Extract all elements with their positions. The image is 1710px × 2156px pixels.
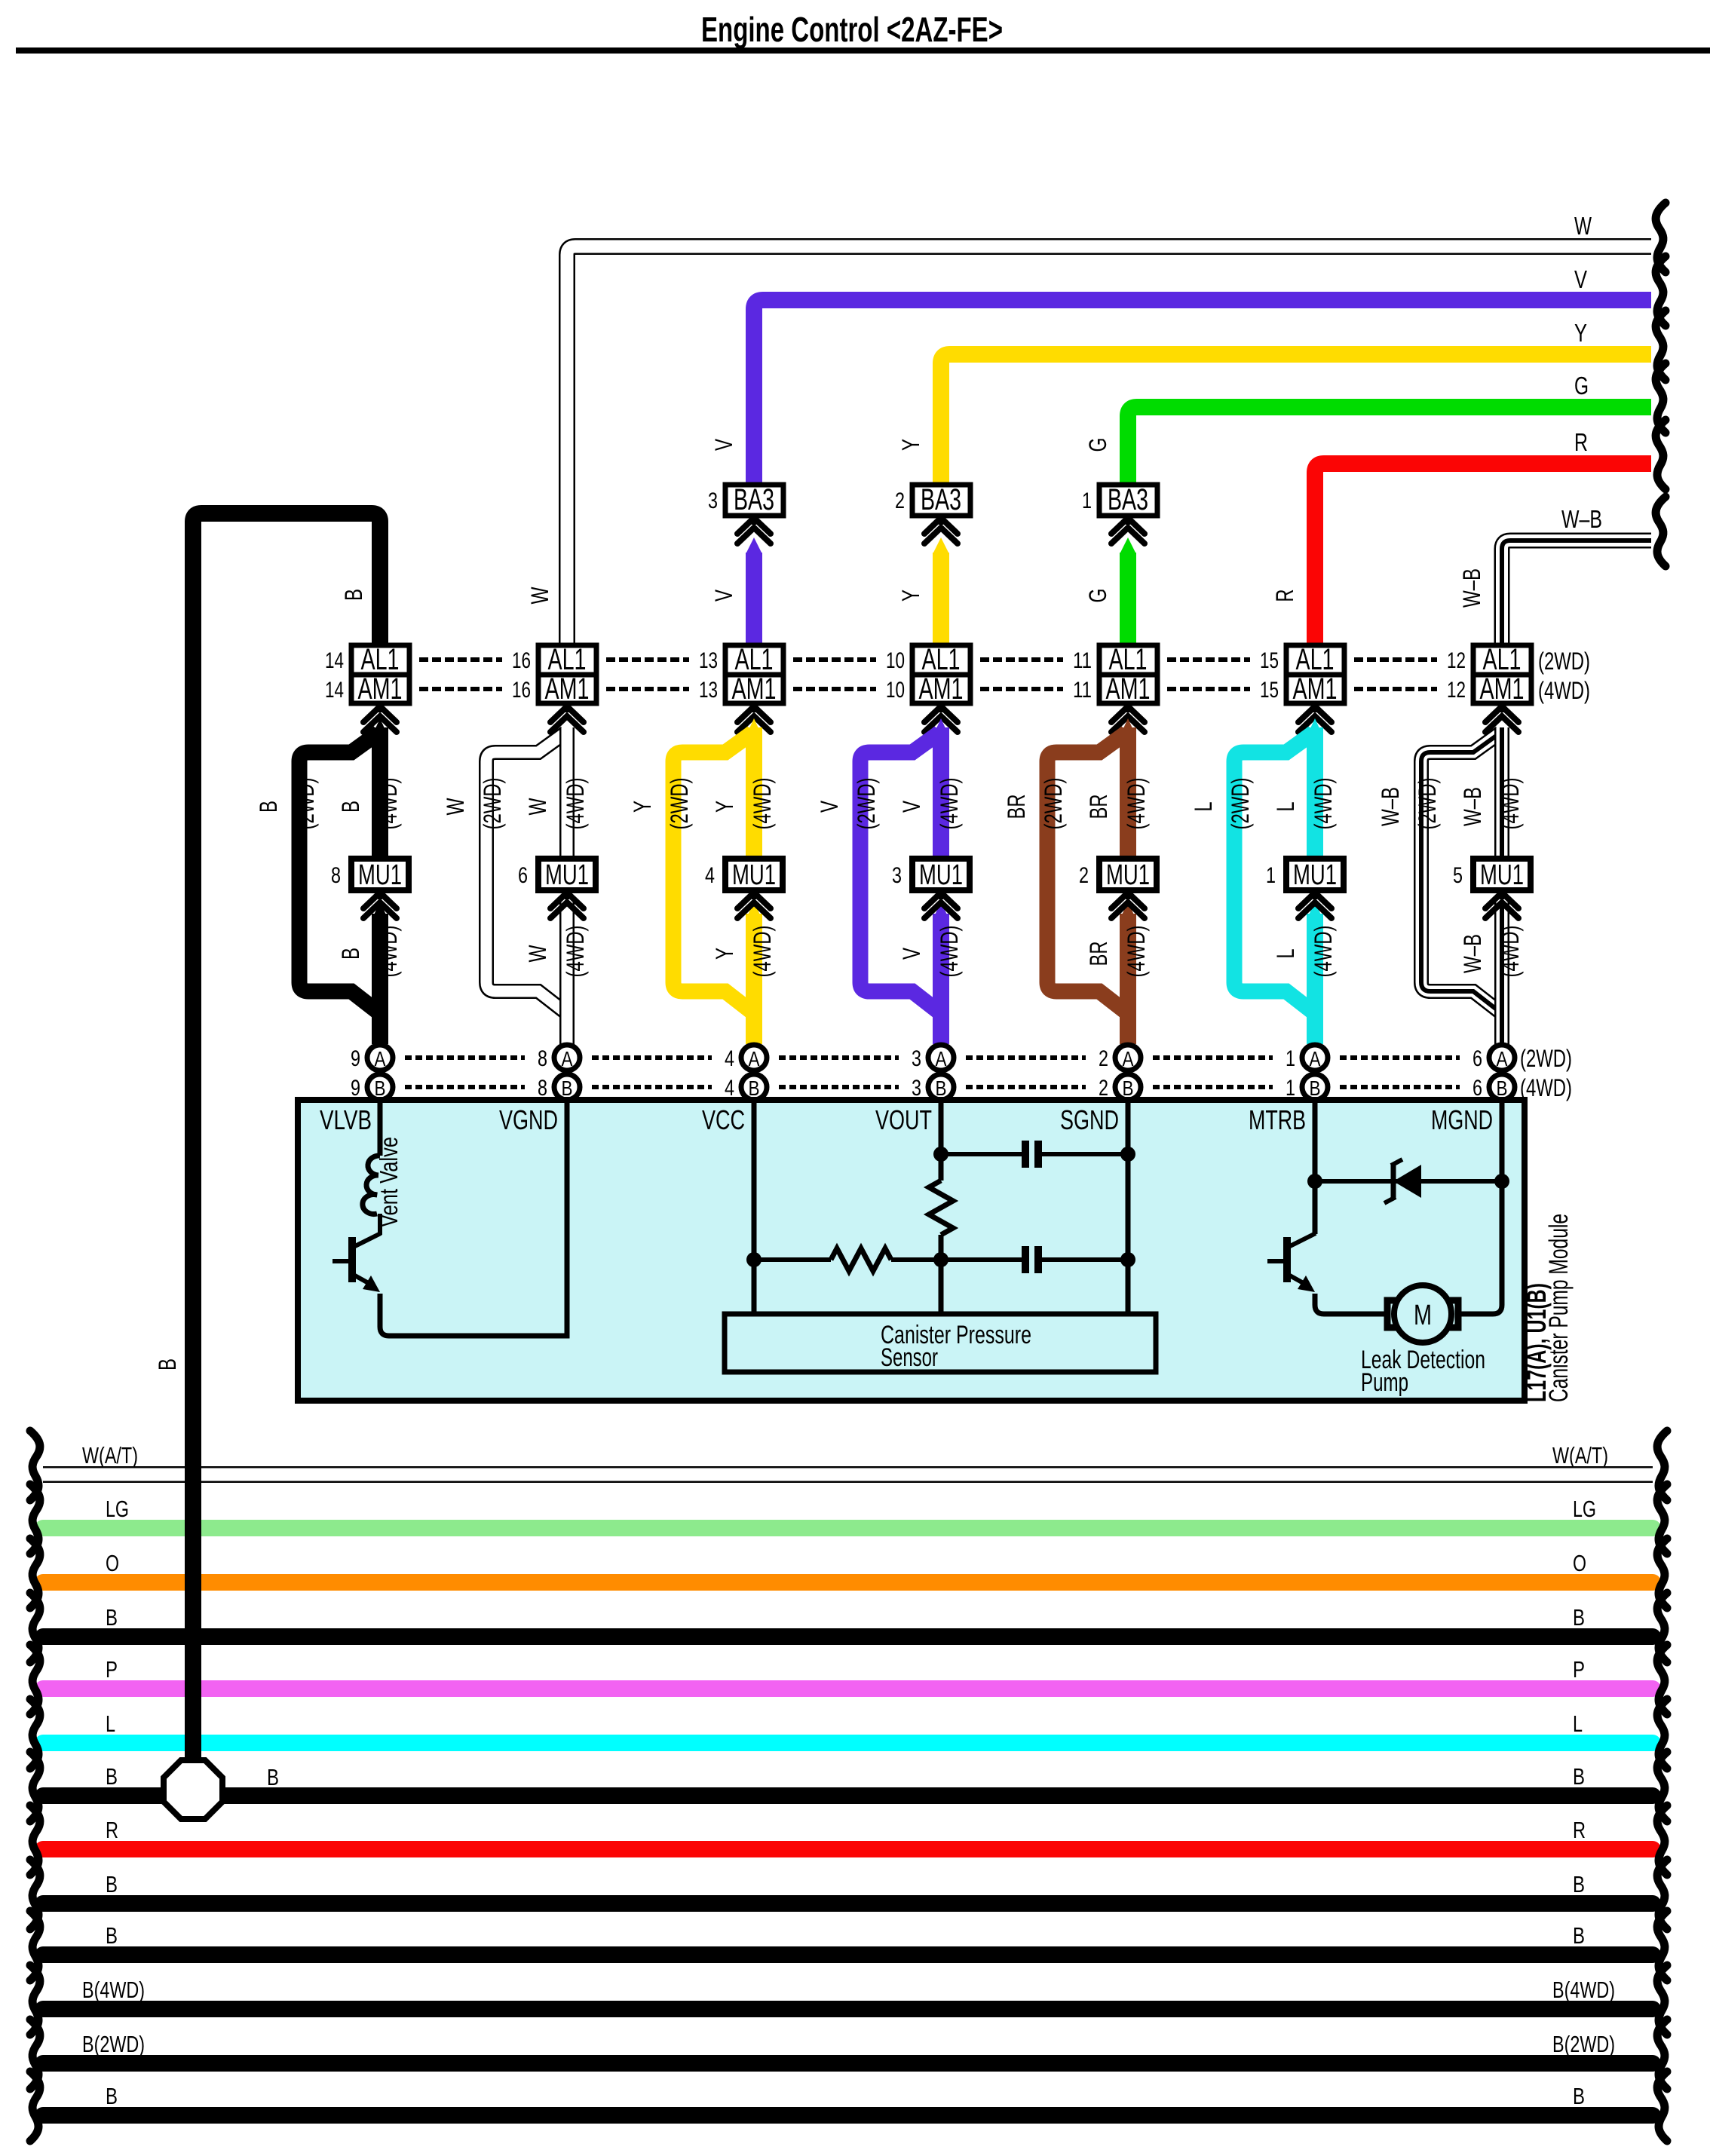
svg-text:W: W <box>524 945 551 963</box>
chevron below MU1 pin 6 <box>565 890 569 899</box>
wire W top horizontal (white) <box>567 247 1651 645</box>
svg-text:BR: BR <box>1085 942 1112 966</box>
svg-text:A: A <box>1123 1047 1134 1070</box>
brace left <box>30 1752 40 1821</box>
chevron below MU1 pin 4 <box>752 890 756 899</box>
svg-text:G: G <box>1084 438 1111 452</box>
brace left <box>30 1484 40 1554</box>
wire W–B 2WD branch loop col7 <box>1421 733 1500 1012</box>
dashed link B row <box>405 1085 525 1089</box>
connector MU1 pin 5 <box>1473 859 1531 890</box>
svg-text:6: 6 <box>1472 1046 1482 1071</box>
svg-text:B: B <box>1573 1604 1585 1631</box>
dashed link AM1 row <box>980 687 1063 691</box>
svg-text:AL1: AL1 <box>1109 643 1148 676</box>
svg-text:B: B <box>106 1922 118 1949</box>
wire W 2WD branch loop col2 <box>486 733 565 1012</box>
svg-text:AM1: AM1 <box>545 672 590 706</box>
svg-text:VCC: VCC <box>702 1104 745 1135</box>
node A pin 1 col6 <box>1302 1045 1328 1070</box>
svg-text:AM1: AM1 <box>1293 672 1338 706</box>
svg-text:W: W <box>524 798 551 816</box>
wire row O y=2099 <box>43 1574 1653 1591</box>
brace W-B right <box>1656 497 1666 566</box>
chevron below BA3 pin 3 <box>737 518 771 534</box>
svg-text:Engine Control <2AZ-FE>: Engine Control <2AZ-FE> <box>701 10 1003 49</box>
connector AM1 pin 12 <box>1473 675 1531 703</box>
node B pin 2 col5 <box>1115 1074 1141 1100</box>
svg-text:V: V <box>1574 265 1587 293</box>
svg-text:LG: LG <box>1573 1496 1596 1522</box>
svg-text:2: 2 <box>1099 1046 1108 1071</box>
splice octagon junction <box>164 1760 222 1819</box>
dashed link B row <box>592 1085 712 1089</box>
brace left <box>30 1431 40 1500</box>
dashed link A row <box>1340 1055 1460 1060</box>
dashed link A row <box>1153 1055 1273 1060</box>
brace right <box>1657 1645 1667 1714</box>
svg-text:B(2WD): B(2WD) <box>82 2031 145 2057</box>
wire MGND vertical to motor <box>1460 1100 1502 1314</box>
connector BA3 pin 3 <box>752 516 756 525</box>
chevron below MU1 pin 3 <box>939 890 943 899</box>
connector BA3 pin 2 <box>939 516 943 525</box>
connector AM1 pin 10 <box>912 675 970 703</box>
svg-text:B(2WD): B(2WD) <box>1552 2031 1615 2057</box>
brace left <box>30 1593 40 1662</box>
svg-text:B: B <box>267 1764 279 1790</box>
dashed link B row <box>779 1085 899 1089</box>
connector BA3 pin 1 <box>1126 516 1130 525</box>
svg-text:P: P <box>1573 1656 1585 1683</box>
svg-text:MU1: MU1 <box>545 859 589 891</box>
svg-text:1: 1 <box>1266 863 1276 888</box>
wire row R y=2453 <box>43 1841 1653 1857</box>
svg-text:B: B <box>1573 2083 1585 2109</box>
connector MU1 pin 8 <box>351 859 409 890</box>
wire row B y=2806 <box>43 2107 1653 2124</box>
wire row B y=2525 <box>43 1895 1653 1912</box>
svg-text:P: P <box>106 1656 118 1683</box>
svg-text:3: 3 <box>708 488 718 513</box>
wire L 4WD main col6 <box>1307 718 1323 737</box>
svg-text:10: 10 <box>886 678 905 703</box>
svg-text:(4WD): (4WD) <box>1538 677 1590 704</box>
svg-text:1: 1 <box>1082 488 1092 513</box>
node B pin 8 col2 <box>554 1074 580 1100</box>
svg-text:4: 4 <box>705 863 715 888</box>
junction dot MGND <box>1494 1174 1509 1189</box>
brace right <box>1657 1539 1667 1608</box>
svg-text:10: 10 <box>886 648 905 673</box>
chevron below AM1 pin 15 <box>1313 703 1317 712</box>
connector MU1 pin 2 <box>1099 859 1157 890</box>
svg-text:V: V <box>898 948 925 960</box>
svg-text:SGND: SGND <box>1060 1104 1119 1135</box>
svg-text:O: O <box>1573 1550 1586 1576</box>
svg-text:2: 2 <box>1079 863 1089 888</box>
svg-text:R: R <box>1271 590 1298 602</box>
svg-text:AM1: AM1 <box>1480 672 1525 706</box>
dashed link A row <box>405 1055 525 1060</box>
wire L 2WD branch loop col6 <box>1234 733 1313 1012</box>
brace left <box>30 1539 40 1608</box>
connector AL1 pin 13 <box>725 645 783 675</box>
wire row B(2WD) y=2737 <box>43 2055 1653 2072</box>
brace left <box>30 1911 40 1980</box>
svg-text:V: V <box>816 801 843 813</box>
wire row B y=2171 <box>43 1628 1653 1645</box>
svg-text:B: B <box>106 1604 118 1631</box>
svg-text:B: B <box>1310 1076 1321 1100</box>
svg-text:B: B <box>106 2083 118 2109</box>
chevron below AM1 pin 13 <box>752 703 756 712</box>
svg-text:3: 3 <box>892 863 902 888</box>
resistor vertical on VOUT <box>929 1181 953 1235</box>
wire MTRB vertical <box>1313 1100 1318 1234</box>
wire V between AL1-13 and BA3-3 <box>746 553 762 645</box>
svg-text:B: B <box>936 1076 947 1100</box>
wire G horizontal from BA3-1 to right edge <box>1128 407 1651 485</box>
dashed link AL1 row <box>980 657 1063 662</box>
svg-text:8: 8 <box>538 1046 547 1071</box>
brace V right <box>1656 256 1666 326</box>
chevron below BA3 pin 2 <box>924 518 958 534</box>
svg-text:(4WD): (4WD) <box>1123 926 1150 978</box>
resistor horizontal on VCC-VOUT <box>754 1257 831 1262</box>
dashed link AL1 row <box>1354 657 1437 662</box>
svg-text:AL1: AL1 <box>1296 643 1335 676</box>
component canister pressure sensor box <box>725 1314 1156 1372</box>
svg-text:M: M <box>1414 1300 1432 1331</box>
wire B 4WD main col1 <box>372 718 388 737</box>
svg-text:BA3: BA3 <box>1108 483 1148 516</box>
brace G right <box>1656 363 1666 433</box>
connector AM1 pin 16 <box>538 675 596 703</box>
svg-text:Canister Pump Module: Canister Pump Module <box>1544 1214 1574 1402</box>
wire V 2WD branch loop col4 <box>860 733 939 1012</box>
svg-text:MTRB: MTRB <box>1249 1104 1306 1135</box>
svg-text:A: A <box>936 1047 947 1070</box>
brace right <box>1657 1911 1667 1980</box>
dashed link A row <box>779 1055 899 1060</box>
svg-text:9: 9 <box>351 1046 360 1071</box>
connector AL1 pin 10 <box>912 645 970 675</box>
wire BR 2WD branch loop col5 <box>1047 733 1126 1012</box>
svg-text:(4WD): (4WD) <box>375 778 402 830</box>
svg-text:16: 16 <box>512 678 531 703</box>
wire row P y=2240 <box>43 1680 1653 1697</box>
wire G between AL1-11 and BA3-1 <box>1120 553 1136 645</box>
brace left <box>30 1805 40 1875</box>
wire Y 2WD branch loop col3 <box>673 733 752 1012</box>
svg-text:15: 15 <box>1260 648 1279 673</box>
brace right <box>1657 1699 1667 1769</box>
node A pin 6 col7 <box>1489 1045 1515 1070</box>
svg-text:B(4WD): B(4WD) <box>82 1977 145 2003</box>
dashed link AM1 row <box>606 687 689 691</box>
node A pin 2 col5 <box>1115 1045 1141 1070</box>
wire VLVB to vent valve coil <box>378 1100 383 1156</box>
wire row B y=2593 <box>43 1946 1653 1963</box>
svg-text:(4WD): (4WD) <box>936 926 963 978</box>
svg-text:VLVB: VLVB <box>320 1104 372 1135</box>
svg-text:W–B: W–B <box>1459 934 1486 973</box>
dashed link AL1 row <box>606 657 689 662</box>
svg-text:O: O <box>106 1550 119 1576</box>
svg-text:(4WD): (4WD) <box>375 926 402 978</box>
dashed link AM1 row <box>1167 687 1250 691</box>
svg-text:VGND: VGND <box>499 1104 558 1135</box>
inductor vent valve coil <box>363 1156 380 1214</box>
wire V horizontal from BA3-3 to right edge <box>754 300 1651 485</box>
svg-text:W(A/T): W(A/T) <box>1552 1442 1608 1468</box>
chevron below MU1 pin 1 <box>1313 890 1317 899</box>
svg-text:12: 12 <box>1447 678 1466 703</box>
svg-text:B: B <box>1573 1922 1585 1949</box>
svg-text:11: 11 <box>1073 648 1092 673</box>
title underline <box>16 47 1710 54</box>
chevron below AM1 pin 16 <box>565 703 569 712</box>
chevron below AM1 pin 11 <box>1126 703 1130 712</box>
junction dot MTRB <box>1307 1174 1322 1189</box>
svg-text:5: 5 <box>1453 863 1463 888</box>
svg-text:W: W <box>1574 212 1592 240</box>
brace left <box>30 1965 40 2035</box>
svg-text:B: B <box>337 801 364 813</box>
wire vent valve emitter to VGND <box>380 1100 567 1336</box>
transistor vent valve driver <box>378 1214 382 1235</box>
wire R from AL1-15 up and right to edge <box>1315 464 1651 645</box>
brace right <box>1657 1805 1667 1875</box>
svg-text:Y: Y <box>897 439 924 451</box>
connector AL1 pin 15 <box>1286 645 1344 675</box>
svg-text:B: B <box>1123 1076 1134 1100</box>
connector AL1 pin 16 <box>538 645 596 675</box>
svg-text:11: 11 <box>1073 678 1092 703</box>
svg-text:W–B: W–B <box>1561 505 1602 533</box>
svg-text:(4WD): (4WD) <box>562 778 589 830</box>
svg-text:(4WD): (4WD) <box>1497 926 1524 978</box>
svg-text:B: B <box>340 589 367 601</box>
wire SGND vertical <box>1126 1100 1131 1314</box>
svg-text:(2WD): (2WD) <box>1414 778 1441 830</box>
svg-text:V: V <box>710 439 737 451</box>
connector AM1 pin 15 <box>1286 675 1344 703</box>
connector AM1 pin 13 <box>725 675 783 703</box>
svg-text:(2WD): (2WD) <box>853 778 880 830</box>
connector AM1 pin 14 <box>351 675 409 703</box>
connector MU1 pin 1 <box>1286 859 1344 890</box>
svg-text:(4WD): (4WD) <box>749 778 776 830</box>
wire VOUT vertical <box>939 1100 944 1181</box>
svg-text:(4WD): (4WD) <box>562 926 589 978</box>
svg-text:(2WD): (2WD) <box>1520 1045 1572 1072</box>
brace right <box>1657 1593 1667 1662</box>
svg-text:AM1: AM1 <box>1106 672 1151 706</box>
svg-text:B: B <box>154 1358 181 1370</box>
brace W right <box>1656 203 1666 272</box>
svg-text:MGND: MGND <box>1431 1104 1493 1135</box>
brace right <box>1657 1431 1667 1500</box>
svg-text:BR: BR <box>1085 795 1112 819</box>
brace R right <box>1656 420 1666 489</box>
svg-text:(2WD): (2WD) <box>1538 648 1590 675</box>
svg-text:MU1: MU1 <box>358 859 402 891</box>
capacitor bottom between VOUT and SGND <box>941 1257 1022 1262</box>
chevron below BA3 pin 1 <box>1111 518 1145 534</box>
svg-text:(4WD): (4WD) <box>1520 1074 1572 1101</box>
svg-text:1: 1 <box>1286 1046 1295 1071</box>
svg-text:2: 2 <box>895 488 905 513</box>
svg-text:AL1: AL1 <box>922 643 961 676</box>
svg-text:L: L <box>1272 949 1299 959</box>
svg-text:L: L <box>1272 802 1299 812</box>
dashed link AL1 row <box>1167 657 1250 662</box>
node A pin 8 col2 <box>554 1045 580 1070</box>
svg-text:Y: Y <box>1574 319 1587 347</box>
node B pin 1 col6 <box>1302 1074 1328 1100</box>
svg-text:L: L <box>1190 802 1217 812</box>
wire emitter to motor <box>1315 1294 1386 1314</box>
svg-text:MU1: MU1 <box>1480 859 1524 891</box>
svg-text:VOUT: VOUT <box>875 1104 932 1135</box>
chevron below MU1 pin 8 <box>378 890 382 899</box>
svg-text:B: B <box>1573 1871 1585 1897</box>
connector AM1 pin 11 <box>1099 675 1157 703</box>
chevron below AM1 pin 12 <box>1500 703 1504 712</box>
svg-text:R: R <box>1573 1817 1586 1843</box>
svg-text:B: B <box>1573 1763 1585 1790</box>
brace left <box>30 1860 40 1929</box>
svg-text:Y: Y <box>897 590 924 602</box>
wire Y 4WD main col3 <box>746 718 762 737</box>
dashed link AL1 row <box>793 657 876 662</box>
node A pin 9 col1 <box>367 1045 393 1070</box>
svg-text:V: V <box>898 801 925 813</box>
wire W-B from AL1-12 up and right to edge (white with black stripe) <box>1502 541 1651 645</box>
wire W 4WD main col2 <box>559 727 575 862</box>
svg-text:B: B <box>255 801 282 813</box>
svg-text:B: B <box>562 1076 573 1100</box>
dashed link AM1 row <box>793 687 876 691</box>
svg-text:(4WD): (4WD) <box>1123 778 1150 830</box>
wire row LG y=2027 <box>43 1520 1653 1536</box>
svg-text:(2WD): (2WD) <box>1040 778 1067 830</box>
svg-text:(4WD): (4WD) <box>936 778 963 830</box>
svg-text:Y: Y <box>629 801 656 813</box>
brace left <box>30 2020 40 2089</box>
node B pin 3 col4 <box>928 1074 954 1100</box>
connector AL1 pin 14 <box>351 645 409 675</box>
svg-text:A: A <box>375 1047 386 1070</box>
svg-text:G: G <box>1084 589 1111 603</box>
svg-text:A: A <box>1497 1047 1508 1070</box>
dashed link B row <box>1153 1085 1273 1089</box>
dashed link AL1 row <box>419 657 502 662</box>
svg-text:15: 15 <box>1260 678 1279 703</box>
svg-text:B: B <box>106 1763 118 1790</box>
chevron below MU1 pin 5 <box>1500 890 1504 899</box>
wire Y horizontal from BA3-2 to right edge <box>941 354 1651 485</box>
svg-text:AL1: AL1 <box>1483 643 1522 676</box>
svg-text:(2WD): (2WD) <box>666 778 693 830</box>
component canister pump module box L17(A) U1(B) <box>298 1100 1525 1401</box>
svg-text:W–B: W–B <box>1459 787 1486 826</box>
svg-text:8: 8 <box>331 863 341 888</box>
wire row L y=2312 <box>43 1735 1653 1751</box>
wire row B(4WD) y=2665 <box>43 2001 1653 2017</box>
svg-text:16: 16 <box>512 648 531 673</box>
brace right <box>1657 2072 1667 2141</box>
svg-text:MU1: MU1 <box>732 859 776 891</box>
dashed link B row <box>1340 1085 1460 1089</box>
wire row B y=2382 <box>43 1787 1653 1804</box>
svg-text:A: A <box>1310 1047 1321 1070</box>
brace right <box>1657 2020 1667 2089</box>
svg-text:AM1: AM1 <box>919 672 964 706</box>
svg-text:3: 3 <box>912 1046 921 1071</box>
brace left <box>30 1645 40 1714</box>
chevron below MU1 pin 2 <box>1126 890 1130 899</box>
node B pin 6 col7 <box>1489 1074 1515 1100</box>
diode zener across pump <box>1315 1179 1502 1184</box>
svg-text:4: 4 <box>725 1046 734 1071</box>
svg-text:BA3: BA3 <box>921 483 961 516</box>
svg-text:L: L <box>1573 1710 1583 1737</box>
wire row W(A/T) y=1956 <box>43 1466 1653 1483</box>
svg-text:AL1: AL1 <box>735 643 774 676</box>
svg-text:MU1: MU1 <box>1293 859 1337 891</box>
svg-text:R: R <box>1574 428 1588 456</box>
wire W–B 4WD main col7 <box>1494 727 1509 862</box>
connector AL1 pin 12 <box>1473 645 1531 675</box>
svg-text:6: 6 <box>518 863 528 888</box>
svg-text:B: B <box>337 948 364 960</box>
svg-text:(4WD): (4WD) <box>749 926 776 978</box>
svg-text:BR: BR <box>1003 795 1030 819</box>
dashed link A row <box>592 1055 712 1060</box>
connector MU1 pin 3 <box>912 859 970 890</box>
brace right <box>1657 1752 1667 1821</box>
svg-text:MU1: MU1 <box>1106 859 1150 891</box>
dashed link AM1 row <box>1354 687 1437 691</box>
svg-text:(4WD): (4WD) <box>1497 778 1524 830</box>
svg-text:(2WD): (2WD) <box>292 778 319 830</box>
svg-text:Y: Y <box>711 801 738 813</box>
brace left <box>30 2072 40 2141</box>
svg-text:L: L <box>106 1710 115 1737</box>
svg-text:G: G <box>1574 372 1589 400</box>
chevron below AM1 pin 10 <box>939 703 943 712</box>
svg-text:12: 12 <box>1447 648 1466 673</box>
brace right <box>1657 1860 1667 1929</box>
capacitor top between VOUT and SGND <box>941 1152 1022 1156</box>
svg-text:LG: LG <box>106 1496 129 1522</box>
svg-text:Sensor: Sensor <box>881 1343 938 1372</box>
motor M leak detection pump <box>1394 1285 1451 1343</box>
svg-text:AL1: AL1 <box>548 643 587 676</box>
svg-text:MU1: MU1 <box>919 859 963 891</box>
connector AL1 pin 11 <box>1099 645 1157 675</box>
node B pin 4 col3 <box>741 1074 767 1100</box>
node A pin 3 col4 <box>928 1045 954 1070</box>
wire VCC vertical <box>752 1100 757 1314</box>
svg-text:W–B: W–B <box>1458 568 1485 608</box>
svg-text:(4WD): (4WD) <box>1310 778 1337 830</box>
wire B 2WD branch loop col1 <box>299 733 378 1012</box>
svg-text:A: A <box>749 1047 760 1070</box>
